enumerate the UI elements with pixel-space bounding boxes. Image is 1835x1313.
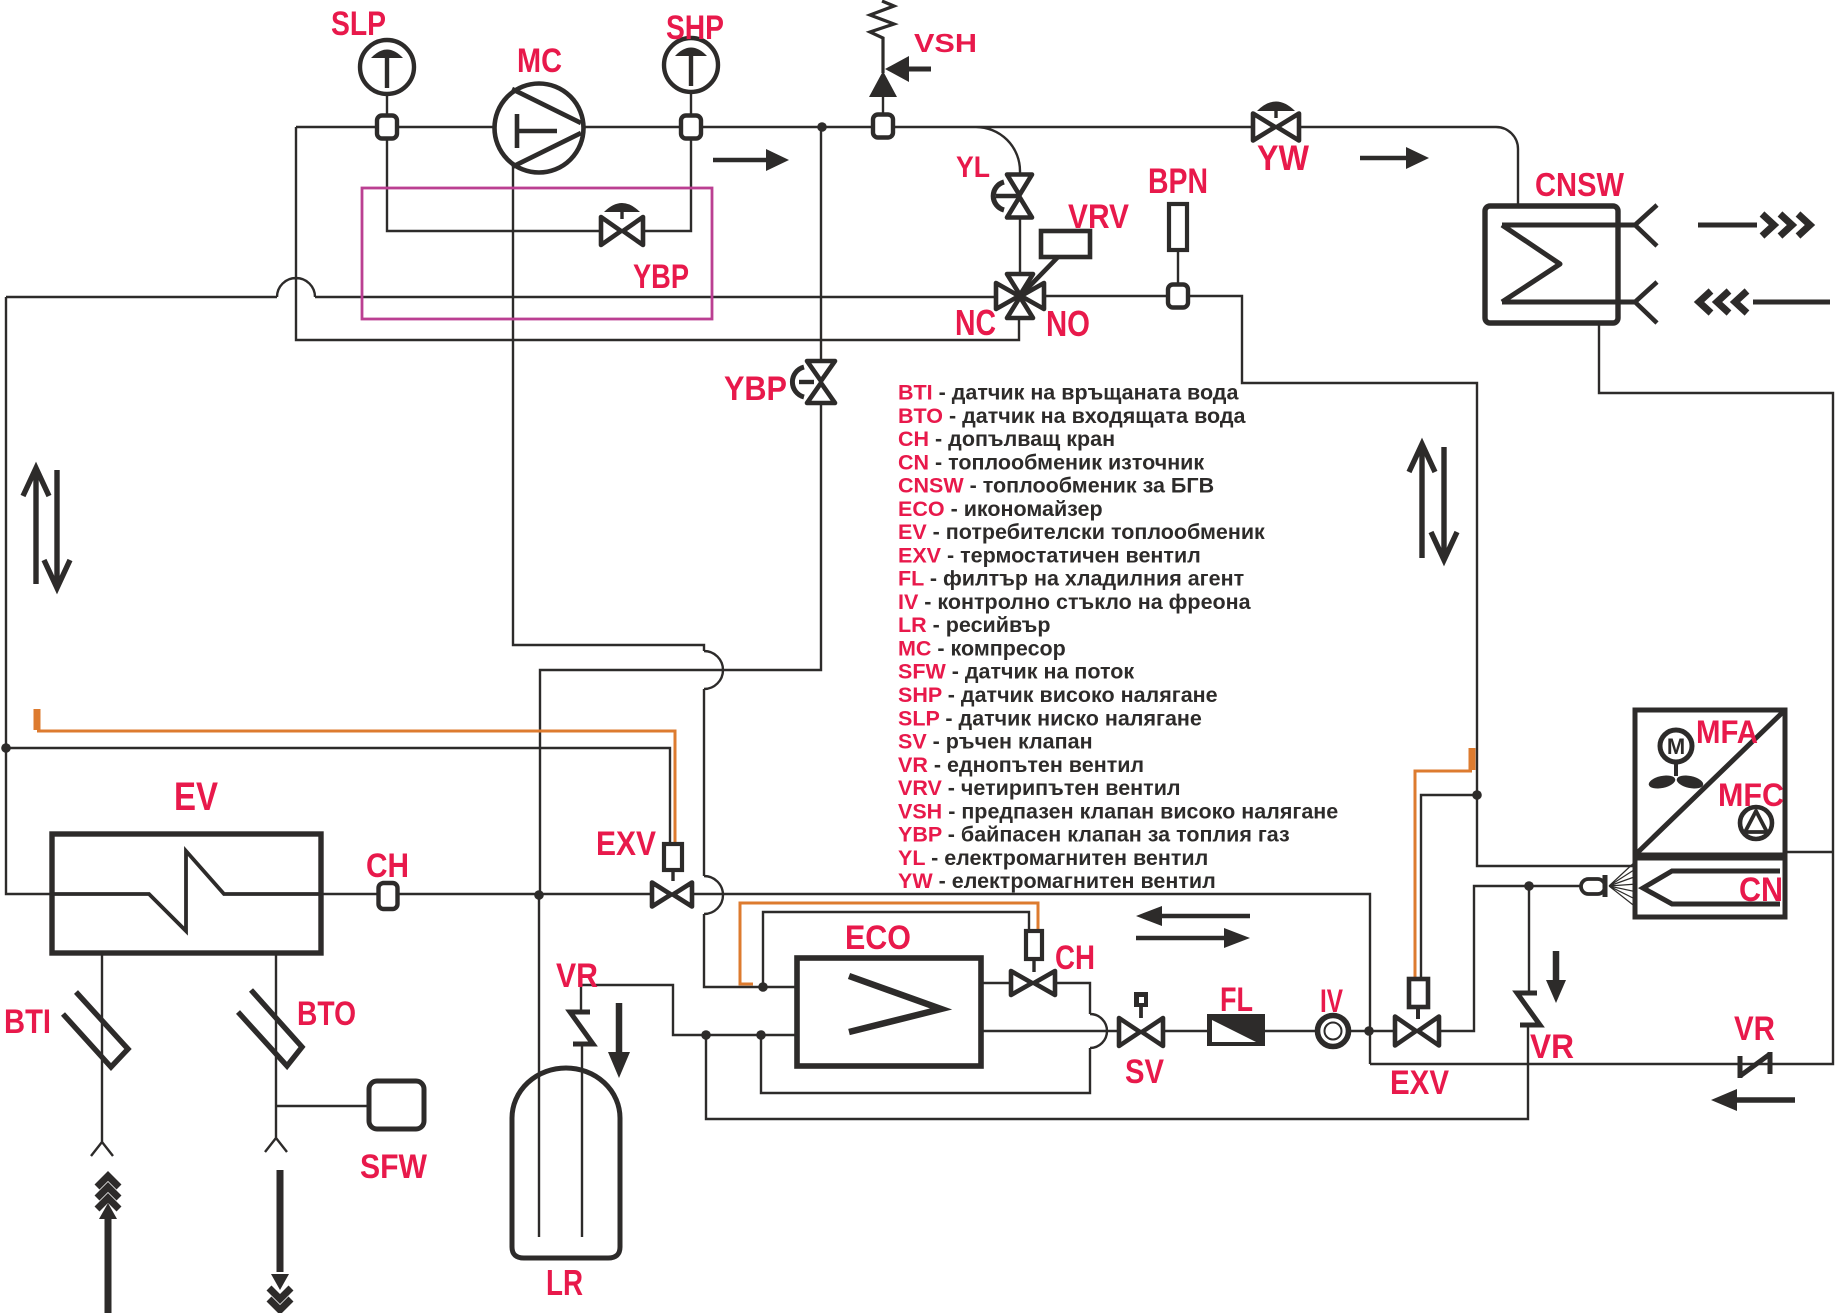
svg-text:VRV: VRV (1068, 198, 1129, 236)
svg-text:SV: SV (1125, 1053, 1164, 1091)
svg-text:CH - допълващ кран: CH - допълващ кран (898, 427, 1115, 451)
svg-text:M: M (1667, 734, 1685, 759)
svg-text:YL: YL (956, 151, 990, 184)
svg-text:YBP - байпасен клапан за топли: YBP - байпасен клапан за топлия газ (898, 823, 1290, 847)
svg-text:BTO: BTO (297, 995, 356, 1033)
svg-text:EV: EV (174, 775, 218, 819)
svg-text:SFW: SFW (360, 1148, 428, 1186)
svg-text:IV: IV (1320, 983, 1343, 1019)
svg-text:VSH - предпазен клапан високо: VSH - предпазен клапан високо налягане (898, 799, 1338, 823)
svg-text:CN: CN (1739, 871, 1783, 909)
svg-text:EXV: EXV (1390, 1064, 1449, 1102)
svg-text:VR: VR (556, 957, 598, 995)
svg-text:MC - компресор: MC - компресор (898, 637, 1066, 661)
svg-text:SV - ръчен клапан: SV - ръчен клапан (898, 730, 1093, 754)
svg-text:YBP: YBP (633, 258, 689, 296)
svg-text:LR: LR (546, 1262, 583, 1303)
svg-text:ECO - икономайзер: ECO - икономайзер (898, 497, 1103, 521)
svg-text:FL: FL (1220, 981, 1253, 1019)
svg-text:CH: CH (366, 847, 409, 885)
svg-text:ECO: ECO (845, 919, 911, 957)
svg-text:YW - електромагнитен вентил: YW - електромагнитен вентил (898, 869, 1216, 893)
svg-text:SLP: SLP (331, 5, 386, 43)
svg-text:SFW - датчик на поток: SFW - датчик на поток (898, 660, 1134, 684)
svg-text:YBP: YBP (724, 370, 787, 408)
svg-text:CNSW - топлообменик за БГВ: CNSW - топлообменик за БГВ (898, 474, 1214, 498)
svg-text:BTI: BTI (4, 1003, 51, 1041)
svg-text:EXV: EXV (596, 825, 656, 863)
svg-text:CH: CH (1055, 939, 1095, 977)
svg-text:SLP - датчик ниско налягане: SLP - датчик ниско налягане (898, 706, 1202, 730)
svg-text:NC: NC (955, 302, 996, 343)
svg-text:VR - еднопътен вентил: VR - еднопътен вентил (898, 753, 1144, 777)
svg-text:IV - контролно стъкло на фреон: IV - контролно стъкло на фреона (898, 590, 1252, 614)
svg-text:VR: VR (1734, 1010, 1775, 1048)
svg-text:FL - филтър на хладилния агент: FL - филтър на хладилния агент (898, 567, 1244, 591)
svg-text:EXV - термостатичен вентил: EXV - термостатичен вентил (898, 543, 1201, 567)
svg-text:MFA: MFA (1696, 714, 1758, 750)
svg-text:YW: YW (1257, 139, 1309, 178)
svg-text:EV - потребителски топлообмени: EV - потребителски топлообменик (898, 520, 1265, 544)
svg-text:NO: NO (1046, 303, 1090, 344)
svg-text:SHP: SHP (666, 9, 724, 47)
svg-text:CNSW: CNSW (1535, 166, 1625, 203)
svg-text:VRV - четирипътен вентил: VRV - четирипътен вентил (898, 776, 1181, 800)
svg-text:MFC: MFC (1718, 777, 1784, 813)
svg-text:BPN: BPN (1148, 162, 1208, 201)
svg-text:BTO - датчик на входящата вода: BTO - датчик на входящата вода (898, 404, 1247, 428)
svg-text:CN - топлообменик източник: CN - топлообменик източник (898, 450, 1204, 474)
svg-text:BTI - датчик на връщаната вода: BTI - датчик на връщаната вода (898, 381, 1239, 405)
svg-text:SHP - датчик високо налягане: SHP - датчик високо налягане (898, 683, 1218, 707)
svg-text:VSH: VSH (914, 28, 977, 58)
svg-text:YL - електромагнитен вентил: YL - електромагнитен вентил (898, 846, 1208, 870)
svg-text:LR - ресийвър: LR - ресийвър (898, 613, 1050, 637)
svg-text:VR: VR (1530, 1028, 1574, 1066)
svg-text:MC: MC (517, 42, 562, 80)
